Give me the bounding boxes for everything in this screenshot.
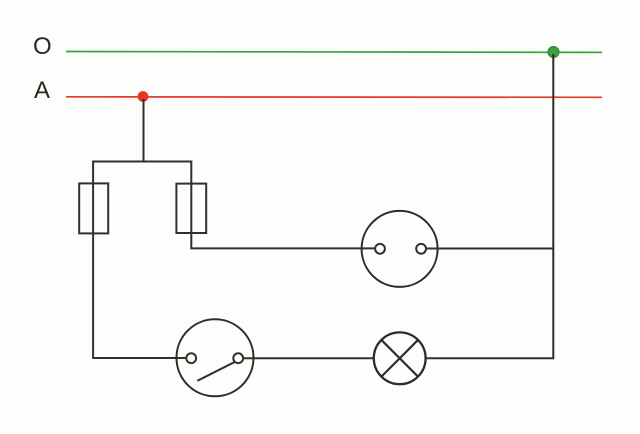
junction node on line A (red dot) [138,91,149,102]
wire: lamp E1 to right riser [426,357,554,359]
wire: left branch down through fuse F1 to switch row [92,161,94,359]
lamp E1 (circle) [374,332,426,384]
wire: switch row from left branch to switch S1 [93,357,186,359]
switch S1 (circle) [177,319,254,396]
socket X1 left pin [375,244,385,254]
switch S1 right pin [233,353,243,363]
wire: socket X1 to right riser [426,248,554,250]
switch S1 lever (open contact arm) [197,362,234,381]
wire: horizontal branch tee [92,161,192,163]
socket X1 right pin [416,244,426,254]
fuse F2 [176,184,206,233]
lamp E1 cross stroke 1 [382,340,418,376]
wire: line O (green neutral conductor) [66,51,602,54]
lamp E1 cross stroke 2 [382,340,418,376]
fuse F1 [79,183,108,233]
wire: right branch down through fuse F2 to socket row [191,161,375,249]
wire: right riser from O junction down to lamp row [552,54,554,359]
svg-text:A: A [34,77,50,104]
switch S1 left pin [186,353,196,363]
wire: line A (red phase conductor) [66,96,602,99]
svg-text:O: O [33,33,52,60]
junction node on line O (green dot) [548,47,559,58]
wire: switch S1 to lamp E1 [243,357,374,359]
wire: from A junction down to branch tee [143,99,145,162]
socket outlet X1 (circle) [362,211,438,287]
